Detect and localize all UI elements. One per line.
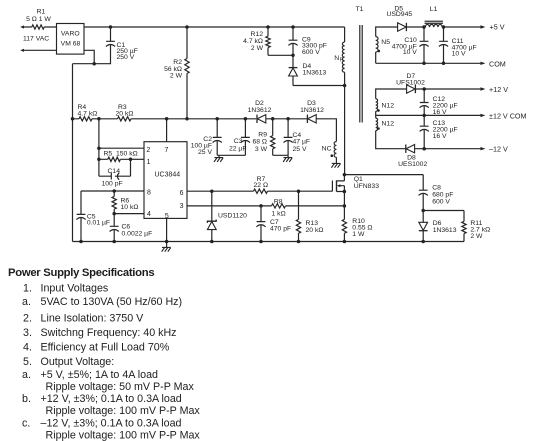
bridge rectifier VARO VM 68 (57, 24, 85, 55)
terminal +12 V (480, 87, 485, 90)
resistor R1 (26, 9, 51, 30)
svg-text:2: 2 (146, 147, 150, 154)
svg-text:470 pF: 470 pF (270, 225, 291, 232)
svg-text:+5 V: +5 V (490, 23, 505, 32)
svg-text:UFN833: UFN833 (354, 183, 380, 190)
wire top rail (+DC bus) (84, 26, 345, 28)
resistor R11 (423, 211, 490, 242)
svg-text:8: 8 (147, 190, 151, 197)
wire bottom rail (73, 241, 465, 243)
capacitor C6 (110, 214, 153, 242)
resistor R9 (252, 119, 274, 156)
junction R6 top (112, 189, 116, 193)
svg-text:+12 V: +12 V (489, 85, 508, 94)
svg-text:22 Ω: 22 Ω (254, 182, 269, 189)
svg-text:R8: R8 (274, 198, 283, 205)
terminal 117 VAC line 1 arrow (20, 25, 24, 28)
svg-text:N5: N5 (381, 39, 390, 46)
junction USD1120 bottom (210, 240, 214, 244)
wire drain line (344, 175, 423, 191)
diode D7 (396, 73, 425, 93)
svg-text:Switchng Frequency: 40 kHz: Switchng Frequency: 40 kHz (41, 327, 177, 339)
wire VCC/bias line (73, 119, 337, 142)
junction pin7 supply (165, 117, 169, 121)
resistor R13 (296, 191, 323, 241)
junction R12 top (266, 25, 270, 29)
svg-text:a.: a. (22, 369, 31, 381)
junction C12/C13 (422, 114, 426, 118)
junction pin5 ground (165, 240, 169, 244)
svg-text:VARO: VARO (61, 31, 80, 38)
svg-text:R9: R9 (258, 132, 267, 139)
capacitor C14 (99, 159, 131, 187)
svg-text:16 V: 16 V (433, 133, 447, 140)
svg-text:Output Voltage:: Output Voltage: (41, 356, 115, 368)
wire R9-C4 ground rail (273, 155, 288, 157)
junction R12/C9 bottom (291, 54, 295, 58)
svg-text:VM 68: VM 68 (61, 41, 81, 48)
terminal 117 VAC line 2 arrow (20, 49, 24, 52)
svg-text:–12 V: –12 V (489, 145, 508, 154)
junction R9 top (271, 117, 275, 121)
terminal -12 V (480, 147, 485, 150)
junction clamp/primary node (343, 84, 347, 88)
wire pin 2 (99, 147, 144, 149)
svg-text:0.01 µF: 0.01 µF (87, 220, 110, 227)
diode D4 (289, 55, 327, 85)
svg-text:N12: N12 (382, 120, 395, 127)
svg-text:L1: L1 (430, 6, 438, 13)
svg-text:c.: c. (22, 418, 30, 430)
svg-text:680 pF: 680 pF (432, 191, 453, 198)
ground below C2 (214, 158, 223, 162)
junction C10 bottom (422, 62, 426, 66)
junction C11 bottom (442, 62, 446, 66)
svg-text:Power Supply Specifications: Power Supply Specifications (8, 267, 154, 279)
junction C10 top (422, 25, 426, 29)
junction C6 bottom (112, 240, 116, 244)
svg-text:N: N (334, 55, 339, 62)
svg-text:7: 7 (165, 147, 169, 154)
svg-text:1N3613: 1N3613 (303, 70, 327, 77)
svg-text:25 V: 25 V (198, 149, 212, 156)
capacitor C5 (76, 213, 110, 241)
junction C7 bottom (259, 240, 263, 244)
junction C9 top (291, 25, 295, 29)
wire input top (24, 26, 57, 28)
svg-text:C8: C8 (432, 184, 441, 191)
wire C2-C3 ground rail (217, 155, 245, 157)
phase dot N5 (378, 50, 381, 53)
junction R2 bottom (185, 117, 189, 121)
resistor R8 (272, 198, 286, 217)
diode D6 (419, 211, 457, 242)
phase dot NC winding (331, 154, 334, 157)
capacitor C10 (392, 27, 429, 63)
junction C7 top (259, 204, 263, 208)
svg-text:0.0022 µF: 0.0022 µF (122, 231, 153, 238)
svg-text:5.: 5. (23, 356, 32, 368)
svg-text:1N3612: 1N3612 (248, 107, 272, 114)
svg-text:4.7 kΩ: 4.7 kΩ (243, 38, 263, 45)
wire center tap (376, 111, 481, 118)
inductor L1 (425, 6, 443, 27)
wire -12V rail (415, 148, 480, 150)
junction pin2 node (97, 146, 101, 150)
svg-text:2 W: 2 W (470, 233, 483, 240)
winding N5 (376, 27, 398, 63)
capacitor C2 (191, 119, 222, 156)
winding N12 upper (376, 89, 407, 111)
capacitor C1 (106, 27, 138, 61)
phase dot N12 upper (377, 109, 380, 112)
spec line 7 (22, 369, 158, 381)
spec line 2 (22, 296, 182, 308)
svg-text:1N3612: 1N3612 (300, 107, 324, 114)
svg-text:100 pF: 100 pF (102, 180, 123, 187)
resistor R10 (342, 218, 372, 241)
svg-text:COM: COM (489, 59, 506, 68)
capacitor C13 (420, 115, 458, 148)
svg-text:R12: R12 (251, 31, 264, 38)
svg-text:Ripple voltage: 100 mV P-P Max: Ripple voltage: 100 mV P-P Max (46, 430, 201, 441)
svg-text:+5 V, ±5%; 1A to 4A load: +5 V, ±5%; 1A to 4A load (41, 369, 159, 381)
junction C5 bottom (79, 240, 83, 244)
svg-text:600 V: 600 V (432, 198, 450, 205)
wire rectifier negative output (84, 50, 94, 63)
junction pin3/source (343, 204, 347, 208)
junction C1 top on rail (109, 25, 113, 29)
capacitor C7 (256, 206, 291, 242)
svg-text:5 Ω 1 W: 5 Ω 1 W (26, 16, 51, 23)
ground below C4 (283, 158, 292, 162)
capacitor C12 (420, 89, 458, 116)
winding Np (primary) (334, 27, 344, 175)
junction C3 top (244, 117, 248, 121)
terminal +5 V (480, 25, 485, 28)
junction D6 bottom rail (421, 240, 425, 244)
wire input bottom (24, 49, 57, 51)
wire clamp to primary (293, 85, 345, 87)
svg-text:a.: a. (22, 296, 31, 308)
terminal COM (480, 62, 485, 65)
junction rectifier negative node (92, 62, 96, 65)
wire pin 3 current sense (187, 205, 344, 207)
svg-text:–12 V, ±3%; 0.1A to 0.3A load: –12 V, ±3%; 0.1A to 0.3A load (41, 418, 182, 430)
svg-text:5VAC to 130VA (50 Hz/60 Hz): 5VAC to 130VA (50 Hz/60 Hz) (41, 296, 183, 308)
svg-text:20 kΩ: 20 kΩ (306, 227, 324, 234)
resistor R12 (243, 27, 293, 55)
wire Q1 source to R10 (343, 192, 345, 220)
svg-text:25 V: 25 V (293, 146, 307, 153)
junction C2 top (215, 117, 219, 121)
svg-text:USD1120: USD1120 (218, 212, 247, 219)
svg-text:Ripple voltage: 100 mV P-P Max: Ripple voltage: 100 mV P-P Max (46, 405, 201, 417)
svg-text:20 kΩ: 20 kΩ (116, 110, 134, 117)
svg-text:3 W: 3 W (255, 146, 268, 153)
ground below NC winding (331, 163, 340, 167)
capacitor C11 (439, 27, 477, 63)
diode D5 (386, 6, 412, 32)
resistor R4 (78, 104, 98, 121)
svg-text:UC3844: UC3844 (154, 171, 180, 178)
spec line 9 (22, 393, 182, 405)
svg-text:1N3613: 1N3613 (433, 227, 457, 234)
spec line 3 (23, 313, 144, 325)
op-amp/PWM controller U1 UC3844 (144, 142, 187, 219)
svg-text:68 Ω: 68 Ω (252, 139, 267, 146)
junction C11 top (442, 25, 446, 29)
svg-text:Input Voltages: Input Voltages (41, 282, 109, 294)
svg-text:C14: C14 (108, 168, 121, 175)
svg-text:47 µF: 47 µF (293, 139, 311, 146)
svg-text:R1: R1 (37, 9, 46, 16)
svg-text:Efficiency at Full Load 70%: Efficiency at Full Load 70% (41, 341, 170, 353)
svg-text:Line Isolation: 3750 V: Line Isolation: 3750 V (41, 313, 145, 325)
wire pin 5 (166, 218, 168, 247)
junction R2 top (185, 25, 189, 29)
svg-text:2 W: 2 W (251, 45, 264, 52)
wire feedback divider vertical (98, 119, 100, 176)
junction Q1 drain (343, 173, 347, 177)
resistor R3 (116, 104, 134, 121)
junction R4/R3 node (97, 117, 101, 121)
svg-text:1: 1 (147, 159, 151, 166)
svg-text:b.: b. (22, 393, 31, 405)
junction R13 bottom (297, 240, 301, 244)
junction C12 top (422, 87, 426, 91)
transistor Q1 UFN833 (332, 175, 379, 192)
resistor R6 (112, 191, 138, 214)
svg-text:UFS1002: UFS1002 (396, 79, 425, 86)
svg-text:USD945: USD945 (386, 11, 412, 18)
spec line 11 (22, 418, 182, 430)
wire left rail (72, 64, 74, 242)
svg-text:1.: 1. (23, 282, 32, 294)
svg-text:+12 V, ±3%; 0.1A to 0.3A load: +12 V, ±3%; 0.1A to 0.3A load (41, 393, 182, 405)
svg-text:22 µF: 22 µF (229, 145, 247, 152)
wire COM rail (376, 62, 481, 64)
ground pin 5 (162, 247, 171, 251)
capacitor C9 (288, 27, 327, 56)
svg-text:1 W: 1 W (352, 231, 365, 238)
spec line 1 (23, 282, 108, 294)
svg-text:10 V: 10 V (452, 50, 466, 57)
junction C8 bottom (421, 209, 425, 213)
svg-text:3: 3 (180, 203, 184, 210)
junction R5 left (97, 158, 101, 162)
svg-text:250 V: 250 V (117, 54, 135, 61)
svg-text:NC: NC (322, 146, 332, 153)
junction left rail / R4 (71, 117, 75, 121)
diode D3 (300, 100, 324, 123)
diode USD1120 (207, 191, 247, 241)
svg-text:2.: 2. (23, 313, 32, 325)
svg-text:10 kΩ: 10 kΩ (121, 204, 139, 211)
spec line 5 (23, 341, 170, 353)
svg-text:4.7 kΩ: 4.7 kΩ (78, 110, 98, 117)
svg-text:10 V: 10 V (403, 49, 417, 56)
junction R13 top (297, 189, 301, 193)
junction R10 bottom (343, 240, 347, 244)
svg-text:4.: 4. (23, 341, 32, 353)
svg-text:2 W: 2 W (170, 73, 183, 80)
wire pin 4 (114, 213, 144, 215)
wire C1 bottom / left rail top (73, 45, 111, 64)
winding NC (bias) (322, 142, 337, 164)
spec line 6 (23, 356, 114, 368)
svg-text:T1: T1 (356, 6, 364, 13)
junction Q1 source (343, 190, 347, 194)
resistor R5 (99, 151, 138, 162)
svg-text:UES1002: UES1002 (398, 161, 427, 168)
wire pin 1 (131, 158, 145, 160)
junction R5 right / pin1 (129, 158, 133, 162)
junction gate clamp diode (210, 189, 214, 193)
svg-text:117 VAC: 117 VAC (23, 35, 49, 42)
svg-text:4: 4 (147, 211, 151, 218)
svg-text:Ripple voltage: 50 mV P-P Max: Ripple voltage: 50 mV P-P Max (46, 381, 195, 393)
wire +5V rail (406, 26, 480, 28)
junction R6 bottom (112, 212, 116, 216)
svg-text:1 kΩ: 1 kΩ (272, 210, 286, 217)
svg-text:600 V: 600 V (302, 49, 320, 56)
svg-text:±12 V COM: ±12 V COM (489, 112, 527, 121)
wire pin 8 (81, 191, 144, 214)
terminal +-12 V COM (480, 114, 485, 117)
junction C13 bottom (422, 147, 426, 151)
transformer T1 core (360, 25, 362, 123)
svg-text:6: 6 (180, 190, 184, 197)
svg-text:N12: N12 (382, 103, 395, 110)
svg-text:R5 150 kΩ: R5 150 kΩ (104, 151, 138, 158)
phase dot N12 lower (377, 127, 380, 130)
wire +12V rail (415, 88, 480, 90)
diode D8 (398, 145, 427, 168)
diode D2 (248, 100, 272, 123)
junction C4 top (286, 117, 290, 121)
resistor R2 (164, 27, 189, 119)
svg-text:3.: 3. (23, 327, 32, 339)
resistor R7 (254, 176, 269, 194)
spec line 4 (23, 327, 177, 339)
winding N12 lower (376, 118, 406, 149)
capacitor C8 (419, 184, 454, 210)
capacitor C4 (284, 119, 311, 156)
capacitor C3 (229, 119, 250, 156)
wire pin 7 (166, 119, 168, 142)
wire pin 6 gate drive (187, 190, 332, 192)
svg-text:C3: C3 (234, 138, 243, 145)
